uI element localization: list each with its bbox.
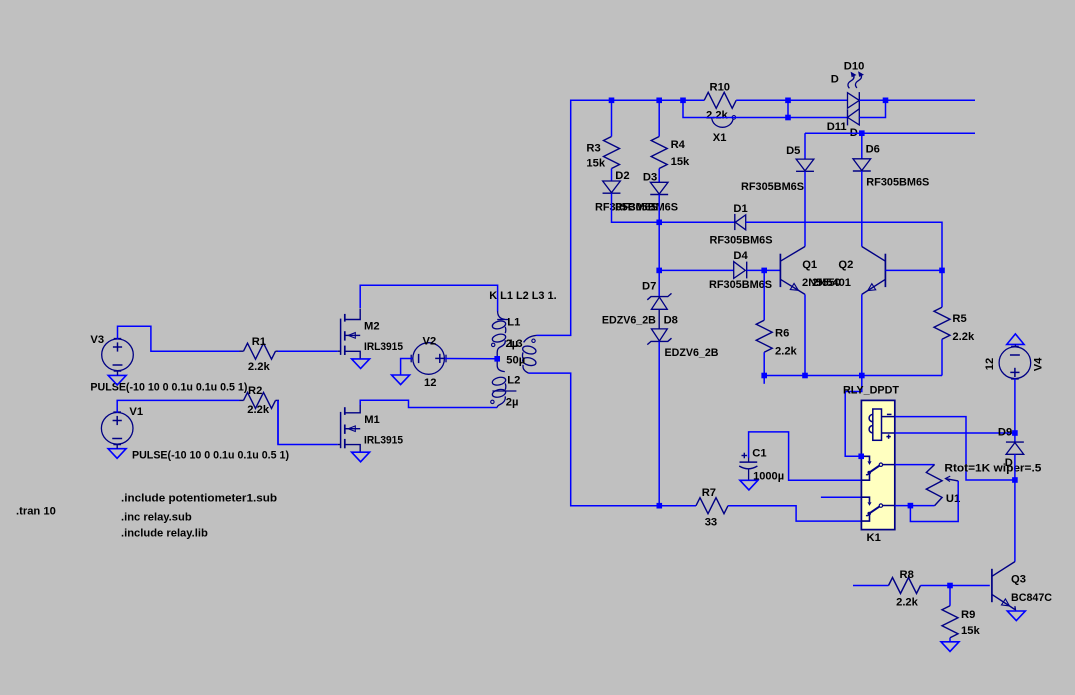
svg-text:M1: M1 xyxy=(364,414,380,426)
label D8 xyxy=(664,314,678,326)
svg-text:R3: R3 xyxy=(586,143,600,155)
value R5 2.2k xyxy=(952,331,975,343)
junction bottom rail R6 xyxy=(761,373,767,379)
K coupling statement xyxy=(489,290,557,302)
label R5 xyxy=(952,313,966,325)
svg-text:2.2k: 2.2k xyxy=(952,331,975,343)
ground below V1 xyxy=(108,449,126,459)
wire R5 stem xyxy=(941,270,943,307)
wire Q2 emitter xyxy=(861,294,863,375)
value D3 RF305BM6S xyxy=(615,202,679,214)
LED D10 xyxy=(848,71,865,109)
junction U1 bottom xyxy=(908,503,914,509)
svg-text:EDZV6_2B: EDZV6_2B xyxy=(602,314,656,326)
potentiometer U1 xyxy=(926,465,958,506)
directive inc relay.sub xyxy=(121,512,192,524)
label R7 xyxy=(702,487,716,499)
svg-text:RLY_DPDT: RLY_DPDT xyxy=(843,385,899,397)
transistor M1 xyxy=(338,402,361,452)
resistor R4 xyxy=(651,137,667,169)
label D5 xyxy=(786,145,800,157)
svg-text:L1: L1 xyxy=(507,316,520,328)
zener D8 xyxy=(647,329,671,345)
svg-text:D2: D2 xyxy=(615,170,629,182)
svg-text:2N5401: 2N5401 xyxy=(812,277,851,289)
svg-text:IRL3915: IRL3915 xyxy=(364,341,403,353)
wire contact1 to U1 top xyxy=(895,464,935,466)
svg-text:Q1: Q1 xyxy=(802,259,817,271)
label L2 xyxy=(507,374,520,386)
label U1 xyxy=(946,493,960,505)
svg-text:D8: D8 xyxy=(664,314,678,326)
value D8 EDZV6_2B xyxy=(665,347,719,359)
wire V4 down xyxy=(1014,379,1016,443)
svg-text:R10: R10 xyxy=(710,82,731,94)
value D4 RF305BM6S xyxy=(709,279,773,291)
resistor R7 xyxy=(696,498,728,514)
wire Q1 emitter xyxy=(804,294,806,375)
value M1 IRL3915 xyxy=(364,434,403,446)
resistor R1 xyxy=(240,343,280,359)
wire V4 gnd stem xyxy=(1014,344,1016,346)
wire V1 gnd stem xyxy=(116,444,118,448)
svg-text:Q3: Q3 xyxy=(1011,574,1026,586)
wire floating to relay xyxy=(821,496,862,498)
transistor M2 xyxy=(338,309,361,359)
potentiometer X1 xyxy=(712,116,736,128)
zener D7 xyxy=(647,293,671,309)
value R7 33 xyxy=(705,517,717,529)
wire D3 down xyxy=(658,195,660,271)
svg-text:IRL3915: IRL3915 xyxy=(364,434,403,446)
label Q2 xyxy=(838,259,853,271)
svg-text:D9: D9 xyxy=(998,427,1012,439)
svg-text:V1: V1 xyxy=(129,406,143,418)
directive .tran xyxy=(16,506,56,518)
label R4 xyxy=(671,139,686,151)
wire V2 minus to ground xyxy=(401,359,413,376)
voltage source V3 xyxy=(102,339,134,372)
wire U1 wiper loop xyxy=(910,481,958,522)
resistor R8 xyxy=(889,578,921,594)
junction second rail D6 xyxy=(859,130,865,136)
svg-text:2.2k: 2.2k xyxy=(248,361,271,373)
wire D6 to Q2 collector xyxy=(861,171,863,247)
value M2 IRL3915 xyxy=(364,341,403,353)
resistor R2 xyxy=(240,392,280,408)
svg-text:R5: R5 xyxy=(952,313,966,325)
capacitor C1 xyxy=(739,453,757,481)
inductor L1 xyxy=(492,311,510,359)
value D6 RF305BM6S xyxy=(866,177,930,189)
value R9 15k xyxy=(961,625,980,637)
label Q1 xyxy=(802,259,817,271)
resistor R6 xyxy=(756,320,772,352)
wire R9 stem xyxy=(949,586,951,606)
label RLY_DPDT xyxy=(843,385,899,397)
svg-text:D7: D7 xyxy=(642,281,656,293)
svg-text:L3: L3 xyxy=(510,338,523,350)
svg-text:15k: 15k xyxy=(961,625,980,637)
value D10 D xyxy=(831,74,839,86)
diode D3 xyxy=(650,182,668,194)
wire D5 to Q1 collector xyxy=(804,171,806,246)
junction center tap xyxy=(494,356,500,362)
relay contact 1 xyxy=(861,456,895,480)
label C1 xyxy=(752,448,766,460)
directive include potentiometer xyxy=(121,493,277,505)
label R8 xyxy=(900,569,914,581)
value Q3 BC847C xyxy=(1011,592,1052,604)
wire contact2 to U1 bottom xyxy=(895,505,935,507)
svg-text:R6: R6 xyxy=(775,328,789,340)
wire D2 to mid rail xyxy=(612,193,735,222)
ground below V3 xyxy=(108,375,126,385)
value D2 RF305BM6S xyxy=(595,202,659,214)
svg-text:.include relay.lib: .include relay.lib xyxy=(121,528,208,540)
ground below M1 xyxy=(352,452,370,462)
value R3 15k xyxy=(586,158,605,170)
value V3 PULSE xyxy=(90,382,247,394)
svg-text:EDZV6_2B: EDZV6_2B xyxy=(665,347,719,359)
svg-text:L2: L2 xyxy=(507,374,520,386)
wire X1 right riser xyxy=(787,100,789,117)
diode D2 xyxy=(603,181,621,193)
svg-text:.include potentiometer1.sub: .include potentiometer1.sub xyxy=(121,493,277,505)
diode D6 xyxy=(853,159,871,171)
wire coil plus xyxy=(895,432,1015,434)
wire R1 to M2 gate xyxy=(278,350,338,352)
svg-text:R2: R2 xyxy=(248,385,262,397)
junction D7 branch xyxy=(656,268,662,274)
value D11 D xyxy=(850,127,858,139)
svg-text:BC847C: BC847C xyxy=(1011,592,1052,604)
wire junction to R6 xyxy=(763,270,765,320)
junction rail R4 xyxy=(656,98,662,104)
wire D7 to D8 xyxy=(658,309,660,329)
value Q2 2N5401 xyxy=(812,277,851,289)
wire L3 bottom down xyxy=(529,373,697,506)
svg-text:Q2: Q2 xyxy=(838,259,853,271)
wire X1 branch xyxy=(683,100,788,117)
wire Q3 emitter stub xyxy=(1014,606,1017,611)
value D7 EDZV6_2B xyxy=(602,314,656,326)
wire R9 to ground xyxy=(949,638,951,642)
label R1 xyxy=(252,336,266,348)
voltage source V1 xyxy=(101,412,133,445)
wire D4 to Q1 base xyxy=(747,269,781,271)
resistor R3 xyxy=(604,137,620,169)
wire D1 to Q2 base riser xyxy=(746,222,942,270)
svg-text:RF305BM6S: RF305BM6S xyxy=(710,235,774,247)
svg-text:.tran 10: .tran 10 xyxy=(16,506,56,518)
diode D9 xyxy=(1006,442,1024,454)
svg-text:V3: V3 xyxy=(90,334,104,346)
value Q1 2N5550 xyxy=(802,277,841,289)
svg-text:RF305BM6S: RF305BM6S xyxy=(866,177,930,189)
label D4 xyxy=(733,250,748,262)
wire D7 junction to D4 xyxy=(659,269,734,271)
svg-text:R1: R1 xyxy=(252,336,266,348)
value V4 12 rotated xyxy=(984,358,996,370)
svg-text:.inc relay.sub: .inc relay.sub xyxy=(121,512,192,524)
svg-text:33: 33 xyxy=(705,517,717,529)
value V1 PULSE xyxy=(132,450,289,462)
svg-text:2.2k: 2.2k xyxy=(896,597,919,609)
wire L3 top to rail xyxy=(537,100,705,335)
label D7 xyxy=(642,281,656,293)
svg-text:D1: D1 xyxy=(733,203,747,215)
svg-text:R8: R8 xyxy=(900,569,914,581)
value R1 2.2k xyxy=(248,361,271,373)
svg-text:X1: X1 xyxy=(713,132,727,144)
wire to D11 xyxy=(788,117,848,119)
junction coil plus node xyxy=(1012,430,1018,436)
value L1 2u xyxy=(506,338,519,350)
svg-text:12: 12 xyxy=(984,358,996,370)
junction D10 D11 right xyxy=(883,98,889,104)
label D10 xyxy=(844,61,865,73)
svg-text:R7: R7 xyxy=(702,487,716,499)
value V2 12 xyxy=(424,377,436,389)
svg-text:D6: D6 xyxy=(866,144,880,156)
svg-text:D: D xyxy=(1005,457,1013,469)
svg-text:PULSE(-10 10 0 0.1u 0.1u 0.5 1: PULSE(-10 10 0 0.1u 0.1u 0.5 1) xyxy=(132,450,289,462)
relay contact 2 xyxy=(861,497,894,521)
inductor L3 xyxy=(522,335,537,373)
wire V3 to R1 xyxy=(118,326,240,351)
svg-text:D11: D11 xyxy=(827,121,847,133)
wire rail to R4 xyxy=(658,100,660,136)
label D3 xyxy=(643,172,657,184)
wire R6 to bottom rail xyxy=(763,352,765,375)
ground below M2 xyxy=(352,359,370,369)
label V4 rotated xyxy=(1032,357,1044,371)
ground below Q3 xyxy=(1007,611,1025,621)
value D1 RF305BM6S xyxy=(710,235,774,247)
wire rail to D6 xyxy=(861,133,863,159)
svg-text:Rtot=1K wiper=.5: Rtot=1K wiper=.5 xyxy=(944,463,1041,475)
value L2 2u xyxy=(506,397,519,409)
junction rail X1 left xyxy=(680,98,686,104)
inductor L2 xyxy=(491,359,517,408)
transistor Q2 xyxy=(862,247,886,295)
wire D8 down to R7 rail xyxy=(658,341,660,505)
wire relay control xyxy=(845,376,862,457)
directive include relay.lib xyxy=(121,528,208,540)
junction mid rail D3 xyxy=(656,220,662,226)
diode D5 xyxy=(796,159,814,171)
ground below V2 xyxy=(392,375,410,385)
diode D4 xyxy=(734,262,747,279)
label L3 overlapped xyxy=(510,338,523,350)
svg-text:2µ: 2µ xyxy=(506,397,519,409)
junction rail X1 right xyxy=(785,98,791,104)
junction rail R3 xyxy=(609,98,615,104)
ground below R9 xyxy=(941,642,959,652)
junction bottom rail Q1 xyxy=(802,373,808,379)
svg-text:2.2k: 2.2k xyxy=(706,110,729,122)
svg-text:M2: M2 xyxy=(364,321,380,333)
svg-text:RF305BM6S: RF305BM6S xyxy=(741,181,805,193)
label V2 xyxy=(423,336,437,348)
transistor Q3 xyxy=(992,562,1015,610)
wire R2 to M1 gate xyxy=(278,400,338,444)
wire M2 drain to L1 xyxy=(360,285,497,311)
junction X1 lower right xyxy=(785,115,791,121)
wire to D7 xyxy=(658,270,660,296)
svg-text:D: D xyxy=(831,74,839,86)
svg-text:C1: C1 xyxy=(752,448,766,460)
value L3 50u xyxy=(506,355,525,367)
wire R4 to D3 xyxy=(658,169,660,183)
wire Q2 base to R5 xyxy=(885,269,942,271)
ground above V4 xyxy=(1007,334,1024,345)
wire R5 bottom xyxy=(941,339,943,375)
svg-text:2.2k: 2.2k xyxy=(775,346,798,358)
label X1 xyxy=(713,132,727,144)
svg-text:D3: D3 xyxy=(643,172,657,184)
label D6 xyxy=(866,144,880,156)
label R6 xyxy=(775,328,789,340)
svg-text:2.2k: 2.2k xyxy=(247,404,270,416)
value U1 params xyxy=(944,463,1041,475)
wire bottom rail xyxy=(764,375,942,377)
svg-text:D10: D10 xyxy=(844,61,865,73)
voltage source V2 xyxy=(411,343,446,375)
wire rail to R3 xyxy=(611,100,613,136)
value R6 2.2k xyxy=(775,346,798,358)
label Q3 xyxy=(1011,574,1026,586)
svg-text:RF305BM6S: RF305BM6S xyxy=(709,279,773,291)
resistor R5 xyxy=(934,307,950,339)
label K1 xyxy=(867,532,881,544)
value C1 1000u xyxy=(753,471,784,483)
label R3 xyxy=(586,143,600,155)
svg-text:15k: 15k xyxy=(671,156,690,168)
label D11 xyxy=(827,121,847,133)
wire C1 to relay pole1 xyxy=(749,432,862,480)
wire R7 to relay pole2 xyxy=(728,506,861,521)
wire R8 to Q3 base xyxy=(921,585,990,587)
label L1 xyxy=(507,316,520,328)
label R2 xyxy=(248,385,262,397)
wire rail to D5 xyxy=(804,133,806,159)
relay K1 body xyxy=(861,400,894,529)
svg-text:R4: R4 xyxy=(671,139,686,151)
label M2 xyxy=(364,321,380,333)
label D1 xyxy=(733,203,747,215)
svg-text:D5: D5 xyxy=(786,145,800,157)
svg-text:12: 12 xyxy=(424,377,436,389)
junction relay control xyxy=(858,454,864,460)
value D5 RF305BM6S xyxy=(741,181,805,193)
svg-text:RF305BM6S: RF305BM6S xyxy=(615,202,679,214)
resistor R10 xyxy=(704,92,736,108)
wire second rail xyxy=(805,132,975,134)
label M1 xyxy=(364,414,380,426)
junction Q2 base R5 xyxy=(939,268,945,274)
svg-text:PULSE(-10 10 0 0.1u 0.1u 0.5 1: PULSE(-10 10 0 0.1u 0.1u 0.5 1) xyxy=(90,382,247,394)
svg-text:K L1 L2 L3 1.: K L1 L2 L3 1. xyxy=(489,290,557,302)
svg-text:15k: 15k xyxy=(586,158,605,170)
junction Q1 base xyxy=(761,268,767,274)
wire R8 left xyxy=(853,585,889,587)
svg-text:V4: V4 xyxy=(1032,357,1044,371)
junction R7 left xyxy=(657,503,663,509)
label D9 xyxy=(998,427,1012,439)
wire V1 to R2 xyxy=(117,400,239,412)
label R10 xyxy=(710,82,731,94)
value R2 2.2k xyxy=(247,404,270,416)
transistor Q1 xyxy=(780,247,805,295)
junction bottom rail Q2 xyxy=(859,373,865,379)
wire V2 plus to center tap xyxy=(445,358,497,360)
voltage source V4 xyxy=(999,346,1031,379)
svg-text:50µ: 50µ xyxy=(506,355,525,367)
svg-text:D4: D4 xyxy=(733,250,748,262)
svg-text:K1: K1 xyxy=(867,532,881,544)
svg-text:V2: V2 xyxy=(423,336,437,348)
wire D9 to Q3 collector xyxy=(1014,454,1016,561)
label R9 xyxy=(961,609,975,621)
wire bottom rail stub xyxy=(763,376,765,384)
junction wiper node xyxy=(1012,477,1018,483)
wire R3 to D2 xyxy=(611,169,613,182)
label V1 xyxy=(129,406,143,418)
svg-text:R9: R9 xyxy=(961,609,975,621)
wire V3 gnd stem xyxy=(117,371,119,376)
ground below C1 xyxy=(740,480,758,490)
value D9 D xyxy=(1005,457,1013,469)
wire M1 drain to L2 xyxy=(360,400,497,407)
LED D11 xyxy=(848,109,860,126)
junction R9 top xyxy=(947,583,953,589)
wire D11 right riser xyxy=(859,100,885,117)
wire D10 right xyxy=(859,99,975,101)
value R4 15k xyxy=(671,156,690,168)
diode D1 xyxy=(735,214,746,230)
label D2 xyxy=(615,170,629,182)
resistor R9 xyxy=(942,606,958,638)
label V3 xyxy=(90,334,104,346)
wire coil minus xyxy=(895,417,1015,480)
value R8 2.2k xyxy=(896,597,919,609)
value R10 2.2k xyxy=(706,110,729,122)
wire R10 to D10 xyxy=(736,99,847,101)
